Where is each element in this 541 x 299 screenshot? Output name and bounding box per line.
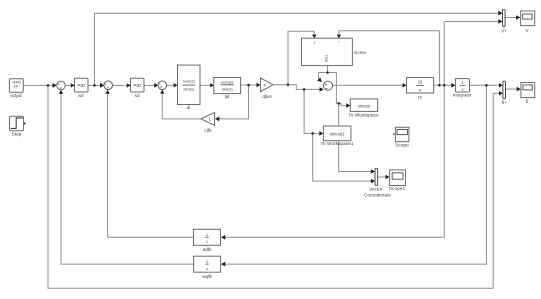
svg-text:den(s): den(s) <box>222 87 234 92</box>
svg-text:fi: fi <box>526 99 528 105</box>
svg-text:Tv: Tv <box>313 40 317 44</box>
svg-text:10: 10 <box>418 80 423 85</box>
svg-text:ljd: ljd <box>225 94 230 100</box>
svg-text:clfk: clfk <box>204 128 212 134</box>
svg-text:fi+: fi+ <box>502 100 507 106</box>
svg-text:moma: moma <box>354 50 367 55</box>
svg-text:Out1: Out1 <box>325 55 329 62</box>
svg-text:Concatenate: Concatenate <box>364 192 392 198</box>
svg-text:num(s): num(s) <box>183 79 196 84</box>
svg-text:sd: sd <box>134 93 139 99</box>
svg-text:dl: dl <box>187 105 191 111</box>
svg-text:den(s): den(s) <box>183 87 195 92</box>
svg-text:Integrator: Integrator <box>453 93 472 98</box>
svg-text:adfk: adfk <box>202 247 212 253</box>
svg-text:wzpd: wzpd <box>10 93 22 99</box>
svg-text:num(s): num(s) <box>221 79 234 84</box>
svg-text:Scope: Scope <box>395 143 409 149</box>
svg-text:PID: PID <box>134 83 142 88</box>
svg-text:PID: PID <box>78 83 86 88</box>
svg-text:Step: Step <box>12 131 22 137</box>
svg-text:s: s <box>461 87 463 92</box>
svg-text:djlxs: djlxs <box>262 94 272 100</box>
svg-text:simout1: simout1 <box>330 132 345 137</box>
svg-text:To Workspace1: To Workspace1 <box>321 141 354 147</box>
svg-text:s: s <box>419 87 421 92</box>
svg-text:To Workspace: To Workspace <box>348 113 379 119</box>
svg-text:wz: wz <box>78 94 84 99</box>
svg-text:Vector: Vector <box>369 187 383 193</box>
svg-text:-K-: -K- <box>262 83 268 87</box>
svg-text:tz: tz <box>418 95 422 101</box>
svg-text:wqfk: wqfk <box>202 274 212 280</box>
svg-text:simout: simout <box>358 103 371 108</box>
svg-text:V+: V+ <box>501 28 507 34</box>
svg-text:Scope1: Scope1 <box>389 186 406 192</box>
